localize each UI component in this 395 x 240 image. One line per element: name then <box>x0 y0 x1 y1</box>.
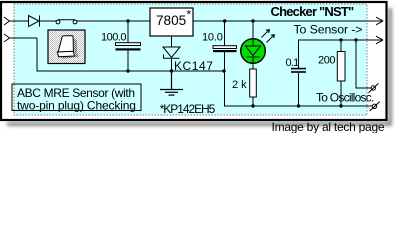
svg-text:Checker "NST": Checker "NST" <box>271 4 354 19</box>
capacitor C2 bottom lead down to bus corner <box>225 52 373 106</box>
capacitor C1 top lead <box>127 21 129 43</box>
junction: C1 top <box>126 19 129 22</box>
junction: scope tap <box>354 38 357 41</box>
svg-text:100.0: 100.0 <box>101 32 126 44</box>
wire: terminal J1 to diode anode <box>10 20 29 22</box>
push-button picture box <box>48 30 85 64</box>
junction: R2 to bus <box>339 104 342 107</box>
junction: R1 to bus <box>251 104 254 107</box>
wire: scope signal drop <box>356 40 371 88</box>
scope ground terminal <box>370 102 380 111</box>
resistor R2 bottom lead <box>340 81 342 106</box>
wire: regulator output to sensor arrow <box>193 20 382 22</box>
diode VD1 <box>29 16 40 27</box>
wire: switch to regulator input <box>77 20 151 22</box>
capacitor C1 negative plate <box>116 48 141 50</box>
junction: ground bus tee <box>222 69 225 72</box>
wire: down to ground bus <box>36 38 38 72</box>
capacitor C1 positive plate <box>116 43 141 46</box>
LED HL1 body <box>241 39 266 64</box>
resistor R1 bottom lead <box>252 97 254 106</box>
frame drop shadow <box>7 8 392 126</box>
LED emission arrow 2 <box>267 35 275 43</box>
resistor R2 body <box>337 52 345 82</box>
svg-text:*: * <box>187 8 192 22</box>
ground symbol <box>160 71 183 95</box>
input terminal J2 (lower) <box>4 34 10 42</box>
arrow head sensor return <box>376 36 383 44</box>
zener diode VD2 <box>163 47 180 58</box>
LED HL1 diode symbol <box>246 39 261 63</box>
resistor R2 top lead <box>340 40 342 52</box>
svg-text:two-pin plug) Checking: two-pin plug) Checking <box>17 99 136 113</box>
svg-text:7805: 7805 <box>156 13 186 28</box>
LED emission arrow 1 <box>262 30 270 38</box>
capacitor C3 bottom plate <box>291 71 306 73</box>
capacitor C2 top lead <box>224 21 226 46</box>
switch S1 blade <box>58 19 75 21</box>
sensor return wire <box>299 40 383 68</box>
resistor R1 body <box>250 69 257 97</box>
button rocker base <box>57 51 74 57</box>
svg-text:Image by al tech page: Image by al tech page <box>272 120 385 133</box>
svg-text:To Sensor ->: To Sensor -> <box>294 23 363 37</box>
ground bus (left) <box>37 70 224 72</box>
capacitor C3 top plate <box>291 68 306 70</box>
caption box <box>12 84 141 111</box>
junction: LED branch top <box>251 19 254 22</box>
LED anode lead <box>252 21 254 39</box>
junction: R2 top <box>339 38 342 41</box>
schematic panel <box>14 4 367 115</box>
button shadow <box>62 38 79 59</box>
svg-text:2 k: 2 k <box>232 79 247 91</box>
capacitor C2 positive plate <box>213 46 237 49</box>
wire: terminal J2 horizontal <box>10 37 38 39</box>
arrow head +V to sensor <box>376 17 383 25</box>
svg-text:*KP142EH5: *KP142EH5 <box>160 102 216 116</box>
junction: C3 to bus <box>297 104 300 107</box>
capacitor C3 bottom lead <box>298 73 300 106</box>
svg-text:To Oscillosc.: To Oscillosc. <box>316 91 374 105</box>
wire: diode cathode to switch <box>40 20 57 22</box>
svg-text:0.1: 0.1 <box>286 57 300 69</box>
junction: C2 top <box>223 19 226 22</box>
outer frame <box>1 2 387 120</box>
junction: C1 bottom <box>126 69 129 72</box>
LED cathode lead <box>252 63 254 69</box>
button rocker key <box>58 36 73 52</box>
svg-text:10.0: 10.0 <box>202 32 223 44</box>
svg-text:KC147: KC147 <box>174 59 213 73</box>
svg-text:200: 200 <box>318 55 335 67</box>
regulator ground pin wire <box>171 36 173 47</box>
capacitor C1 bottom lead <box>127 51 129 72</box>
switch S1 contacts <box>56 20 77 24</box>
zener bottom lead <box>171 58 173 71</box>
capacitor C2 negative plate <box>213 50 237 52</box>
junction: zener / ground <box>170 69 173 72</box>
scope signal terminal <box>369 83 379 92</box>
regulator U1 box <box>150 8 193 36</box>
input terminal J1 (upper) <box>4 17 10 25</box>
